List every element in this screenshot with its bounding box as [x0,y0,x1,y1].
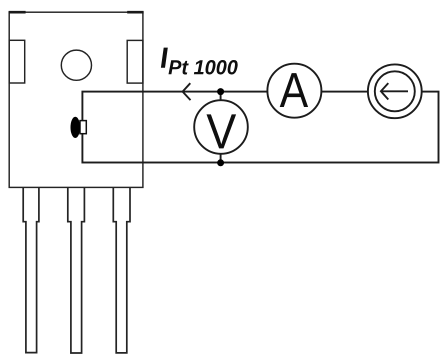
wire measurement loop [82,92,438,163]
transistor package TO-247 body [9,12,143,187]
current label subscript Pt 1000 [169,60,238,75]
Pt1000 sensor pad [80,121,86,134]
Pt1000 sensor bead [71,117,81,138]
package leg 2 [68,188,85,353]
current source arrow [381,83,408,99]
package left side notch rectangle [9,40,25,83]
node top junction dot [217,88,224,95]
current label I [161,48,168,68]
package leg 3 [113,188,130,353]
current source inner circle [375,71,415,111]
ammeter label A [280,73,308,107]
package leg 1 [23,188,39,353]
package mounting hole [61,50,91,80]
node bottom junction dot [217,159,224,166]
voltmeter V circle [194,100,248,154]
ammeter A circle [267,64,321,118]
package top edge dark segment left [9,11,26,14]
current source outer circle [368,64,422,118]
voltmeter label V [207,114,237,148]
package top edge dark segment right [127,11,143,14]
wire voltmeter branch [220,92,222,163]
current direction arrowhead [183,83,191,100]
package right side notch rectangle [127,40,143,83]
